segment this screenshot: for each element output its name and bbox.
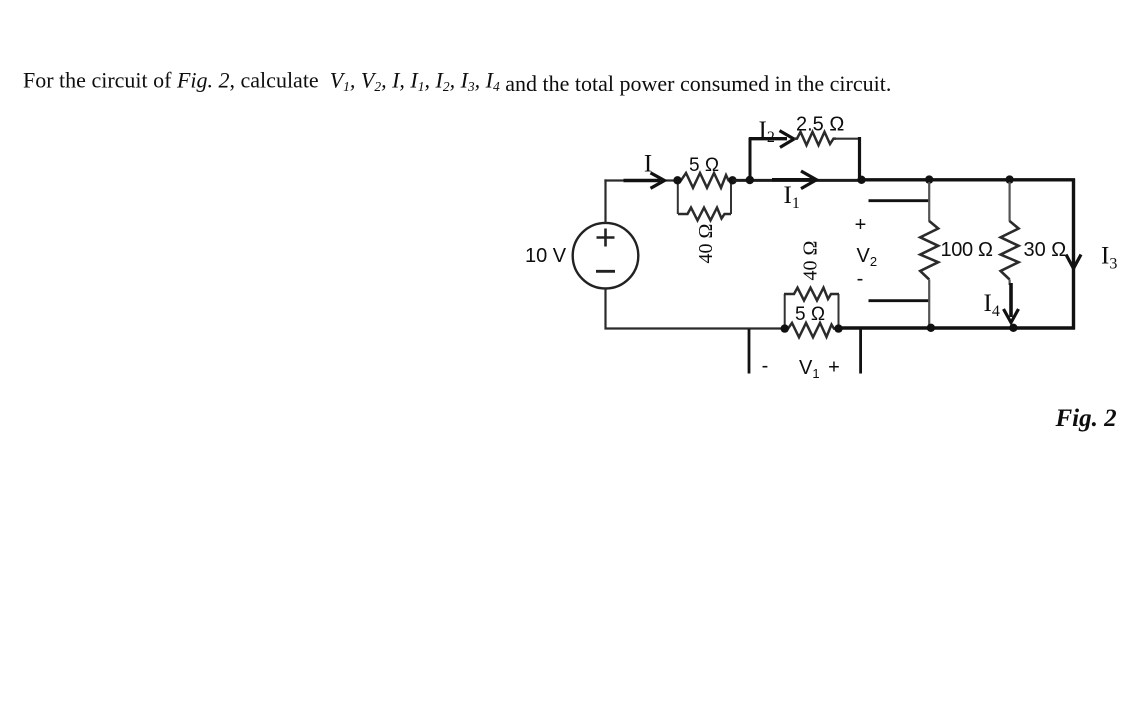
svg-text:10 V: 10 V [525,245,567,267]
resistor R 40ohm bottom-mid parallel [785,294,839,329]
2.5 ohm branch top wire with I2 arrow [749,137,787,140]
svg-text:40 Ω: 40 Ω [695,224,717,264]
svg-text:V1: V1 [799,357,820,381]
svg-text:100 Ω: 100 Ω [941,239,994,261]
node dot top 100ohm [925,175,933,183]
current arrow I4 [1004,283,1019,323]
node dot E bottom [781,324,789,332]
wire: left loop [604,179,784,328]
svg-text:-: - [857,268,864,290]
svg-text:+: + [828,357,840,379]
resistor R 2.5ohm [794,132,836,145]
V1 measurement bar left [748,329,751,374]
node dot top 30ohm [1005,175,1013,183]
source plus sign [597,229,615,247]
node dot G bottom 100ohm [927,324,935,332]
voltage source circle [573,223,639,289]
V2 measurement bar top [869,199,929,202]
node dot A [673,176,681,184]
svg-text:5 Ω: 5 Ω [795,304,825,325]
source minus sign [596,270,615,273]
current arrow I [624,173,665,189]
wire bottom right thick [839,326,1076,329]
svg-text:I1: I1 [784,182,800,212]
resistor R 100ohm [920,182,938,328]
svg-text:+: + [855,214,867,236]
svg-text:Fig. 2: Fig. 2 [1055,405,1117,432]
node dot C [746,176,754,184]
wire top middle [733,179,862,182]
svg-text:2.5 Ω: 2.5 Ω [796,114,844,136]
I2 arrowhead [780,131,795,148]
2.5 ohm branch riser left [749,138,752,182]
wire 2.5 branch right thin [835,138,860,140]
current arrow I1 [772,171,817,189]
svg-text:I4: I4 [984,290,1000,320]
wire top right thick [860,178,1075,181]
svg-text:I: I [644,150,652,177]
svg-text:For the circuit of Fig. 2, cal: For the circuit of Fig. 2, calculate V1,… [23,68,891,97]
V2 measurement bar bottom [869,299,929,302]
svg-text:40 Ω: 40 Ω [800,241,822,281]
wire right vertical [1072,179,1075,330]
2.5 ohm branch riser right [858,137,861,180]
svg-text:V2: V2 [857,245,878,269]
svg-text:I2: I2 [759,117,775,146]
resistor R 30ohm [1001,182,1019,285]
svg-text:-: - [762,355,769,377]
svg-text:5 Ω: 5 Ω [689,155,719,176]
resistor R 5ohm top [678,173,733,188]
current arrow I3 [1066,255,1081,269]
node dot B [728,176,736,184]
problem statement text [23,68,891,97]
node dot F bottom [834,324,842,332]
V1 measurement bar right [859,329,862,374]
node dot D [857,176,865,184]
resistor R 40ohm top-left parallel [678,181,731,215]
node dot H bottom 30ohm [1009,324,1017,332]
svg-text:30 Ω: 30 Ω [1024,239,1067,261]
svg-text:I3: I3 [1101,243,1117,273]
resistor R 5ohm bottom [785,323,839,337]
